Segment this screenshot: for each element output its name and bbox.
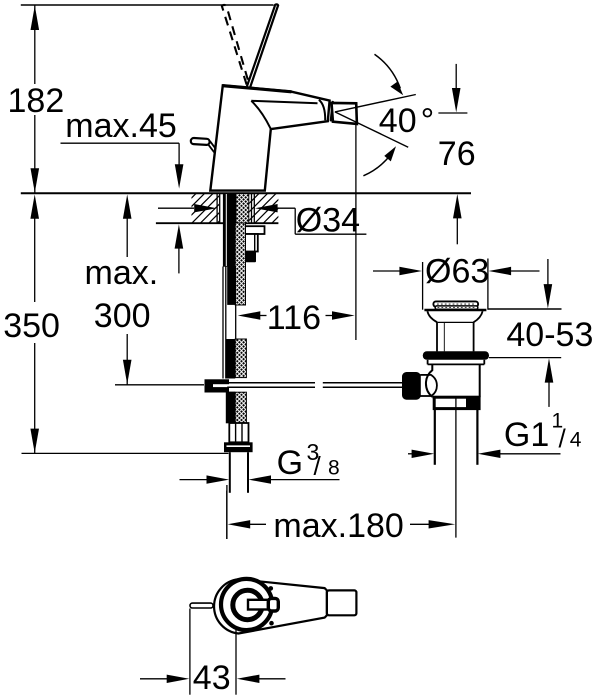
dimension max.300 vertical line <box>123 194 132 384</box>
dimension 182 vertical line <box>31 5 40 193</box>
drain valve wide plate <box>424 309 486 312</box>
drain collar <box>434 397 479 408</box>
dimension 40-53 bottom <box>489 358 561 407</box>
bottom view body outline <box>214 579 327 633</box>
svg-text:350: 350 <box>3 307 60 345</box>
braided hose lower section <box>235 392 246 423</box>
40 degree arc lower <box>363 146 396 176</box>
pop-up pull knob (left of body) <box>191 138 216 152</box>
drain tailpipe <box>435 409 478 465</box>
shank dark tube bar <box>223 194 236 267</box>
bottom view spout stub <box>327 590 357 615</box>
dimension 43 arrows <box>140 675 286 683</box>
faucet lower centerline <box>226 485 228 539</box>
drain valve upper body lip <box>428 360 485 365</box>
shank tube seam (white) <box>225 194 227 266</box>
svg-text:8: 8 <box>328 457 340 480</box>
pull rod clamp (black) <box>205 379 230 392</box>
svg-text:/: / <box>314 451 322 481</box>
hose coupling nut (black) <box>224 442 253 452</box>
side port cylinder <box>420 375 437 396</box>
counter bottom line <box>156 222 279 224</box>
svg-text:76: 76 <box>438 135 476 173</box>
dimension 76 top <box>438 64 467 113</box>
pop-up pull rod (vertical, behind hose) <box>223 267 226 379</box>
spout/aerator junction line <box>331 101 333 122</box>
top reference line (lever tip level) <box>21 4 274 6</box>
lever (solid position) <box>247 4 278 87</box>
dimension 76 bottom arrow <box>453 194 462 244</box>
dimension O34 leader and label <box>158 204 366 234</box>
svg-text:/: / <box>559 424 567 454</box>
bottom view joystick bar <box>248 600 270 610</box>
dimension 116 extension line (spout tip) <box>355 124 357 340</box>
dimension 350 vertical line <box>30 194 39 453</box>
tap hole left edge (double line) <box>217 194 220 224</box>
dimension 116 arrows <box>238 311 355 319</box>
svg-text:40-53: 40-53 <box>506 316 593 354</box>
aerator tip piece <box>332 103 357 124</box>
bottom view centerline <box>235 630 237 695</box>
svg-text:max.45: max.45 <box>65 107 177 145</box>
spout inner crease <box>251 101 270 129</box>
svg-text:116: 116 <box>267 299 321 337</box>
pull-rod guide block (black) <box>245 252 256 263</box>
G3/8 connection tube <box>230 452 248 493</box>
drain centerline <box>455 399 457 538</box>
drain valve pop-up cap <box>433 301 478 306</box>
svg-text:300: 300 <box>94 297 151 335</box>
svg-text:Ø34: Ø34 <box>296 201 360 239</box>
lever (dashed alternate position) <box>222 5 249 85</box>
spout inner top line <box>251 101 317 104</box>
bottom view screw dots <box>269 586 274 591</box>
horizontal actuating rod <box>227 383 404 388</box>
shank tube bar lower narrow part <box>227 267 236 305</box>
max.45 lower arrow (under counter) <box>175 224 184 273</box>
rod knob (black) <box>402 372 421 400</box>
svg-text:182: 182 <box>8 82 65 120</box>
svg-text:40°: 40° <box>379 102 434 140</box>
counter hatching left <box>165 193 248 225</box>
mounting nut below counter <box>224 226 264 234</box>
max.300 bottom leader line <box>115 384 204 386</box>
hose break centerline <box>235 305 237 340</box>
dimension G3/8 arrows <box>180 475 340 483</box>
40 degree arc upper <box>375 54 404 95</box>
counter hatching right <box>228 193 303 225</box>
svg-text:4: 4 <box>570 428 582 451</box>
braided hose middle section <box>235 339 246 378</box>
dimension max.45 leader <box>61 143 184 188</box>
drain valve funnel <box>427 311 482 322</box>
drain valve seal flange (black) <box>423 351 489 360</box>
dimension G1 1/4 arrows <box>408 450 561 458</box>
dimension max.180 <box>227 491 455 539</box>
drain valve cap knurled rim <box>435 306 478 309</box>
svg-text:G1: G1 <box>504 416 549 454</box>
bottom view pull rod <box>190 603 213 608</box>
drain valve neck <box>437 322 474 351</box>
pull-rod guide bracket <box>245 234 258 252</box>
svg-text:max.: max. <box>85 254 159 292</box>
mounting surface line <box>21 192 471 194</box>
O63 extension line left <box>422 262 424 310</box>
svg-text:max.180: max.180 <box>273 507 403 545</box>
dimension 40-53 top <box>488 259 562 309</box>
svg-text:G: G <box>277 444 303 482</box>
40 degree angle lines <box>335 95 416 148</box>
svg-text:Ø63: Ø63 <box>425 252 489 290</box>
drain valve body <box>426 364 480 397</box>
hose hex nut <box>229 423 248 442</box>
braided hose upper section <box>236 194 249 224</box>
faucet body outline <box>210 85 332 190</box>
svg-text:43: 43 <box>193 659 231 697</box>
bottom view inner ring <box>233 590 262 619</box>
body top edge (thick) <box>222 86 291 92</box>
spout end inner curve <box>319 100 325 121</box>
350 bottom reference line <box>22 452 229 454</box>
bottom view outer circle <box>221 579 272 630</box>
tap hole right edge (double line) <box>252 194 255 224</box>
dimension O63 arrows <box>373 267 540 275</box>
dimension 43 extension line <box>189 609 191 695</box>
O63 extension line right <box>487 259 489 310</box>
bottom view joystick end knob <box>268 598 278 611</box>
